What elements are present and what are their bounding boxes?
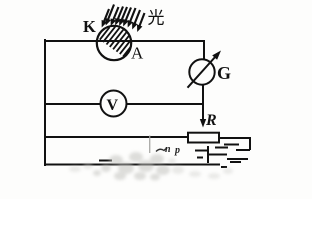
- voltmeter V circle: [101, 91, 127, 117]
- stray small dash: [221, 166, 227, 168]
- wire bottom: [45, 164, 219, 166]
- wire voltmeter row left: [45, 103, 100, 105]
- hatching inside phototube: [100, 27, 131, 57]
- wire G to wiper: [202, 85, 204, 121]
- battery cell plate (degraded) vertical long plate: [99, 145, 250, 168]
- wire top horizontal K-A: [45, 40, 204, 42]
- battery fragment dash e: [227, 158, 248, 160]
- battery lead left: [195, 150, 208, 152]
- rheostat body rectangle: [188, 133, 219, 143]
- battery fragment dash d: [236, 149, 250, 151]
- galvanometer G circle: [189, 59, 214, 84]
- battery fragment dash f: [230, 161, 241, 163]
- light ray top segments: [104, 5, 145, 28]
- watermark residue squiggle: [156, 149, 166, 152]
- wire right vertical top to G: [203, 41, 205, 59]
- wire rheostat right end: [219, 138, 250, 149]
- light ray arrowheads: [102, 18, 143, 32]
- battery fragment dash c: [224, 144, 239, 146]
- galvanometer needle arrow: [188, 56, 217, 88]
- rheostat wiper arrow: [200, 119, 206, 128]
- battery short plate fragment: [197, 157, 203, 159]
- wire left vertical: [44, 40, 46, 165]
- wire rheostat row left: [45, 136, 188, 138]
- wire voltmeter row right: [127, 103, 203, 105]
- phototube circle (K/A tube): [97, 26, 131, 60]
- stray dash above bottom wire: [99, 160, 112, 162]
- watermark residue faint vertical: [149, 136, 151, 154]
- battery fragment dash a: [215, 147, 228, 149]
- battery fragment dash b: [209, 154, 227, 156]
